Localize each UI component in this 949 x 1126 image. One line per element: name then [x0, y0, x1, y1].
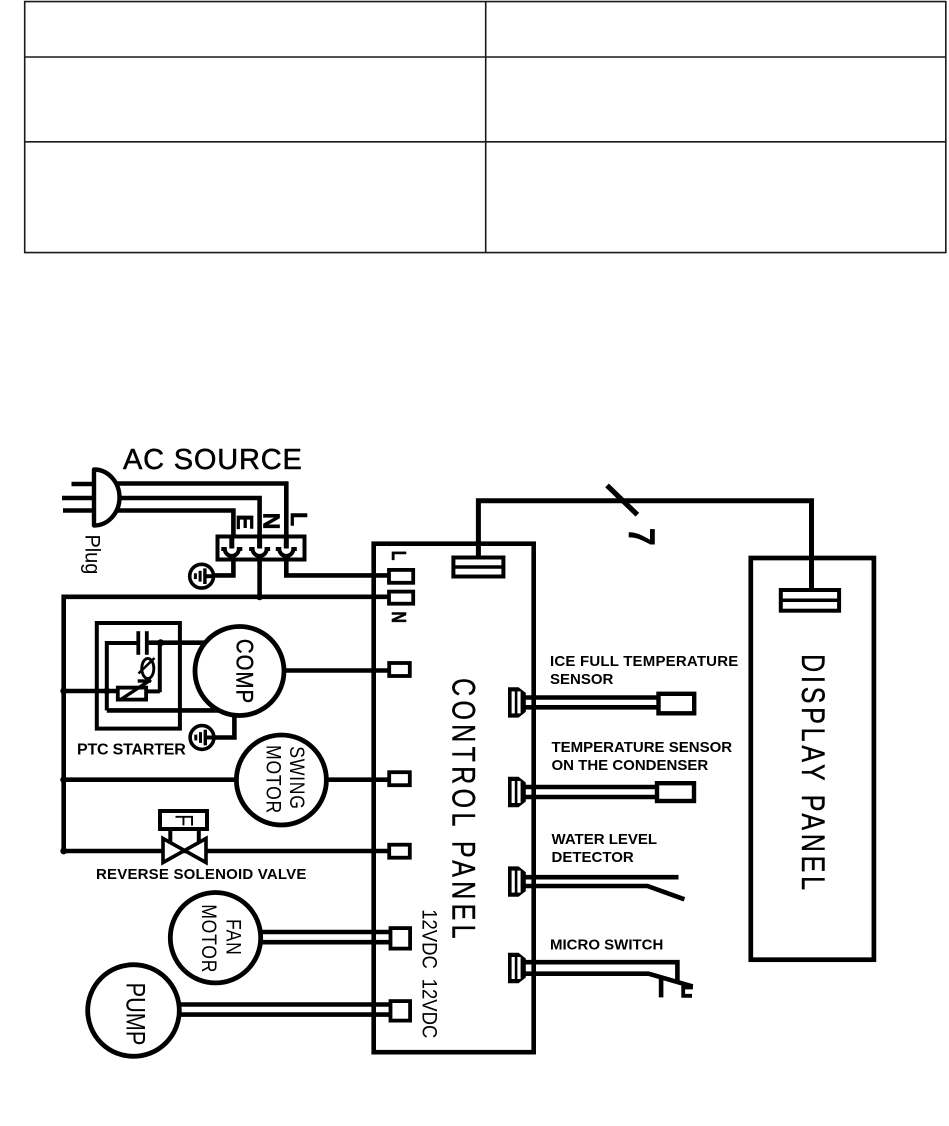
svg-text:PTC STARTER: PTC STARTER — [77, 742, 186, 759]
svg-text:MOTOR: MOTOR — [261, 745, 285, 814]
svg-text:PUMP: PUMP — [120, 983, 150, 1046]
svg-text:DETECTOR: DETECTOR — [552, 849, 634, 866]
svg-text:MICRO SWITCH: MICRO SWITCH — [550, 937, 663, 954]
svg-text:12VDC: 12VDC — [417, 909, 441, 969]
svg-text:MOTOR: MOTOR — [197, 904, 221, 973]
svg-text:REVERSE SOLENOID VALVE: REVERSE SOLENOID VALVE — [96, 866, 307, 883]
svg-text:FAN: FAN — [221, 919, 245, 955]
svg-text:N: N — [259, 513, 285, 530]
svg-text:TEMPERATURE SENSOR: TEMPERATURE SENSOR — [552, 739, 733, 756]
svg-text:F: F — [170, 814, 198, 826]
svg-text:L: L — [387, 551, 409, 561]
svg-text:E: E — [232, 514, 258, 529]
svg-text:7: 7 — [621, 528, 662, 546]
svg-text:12VDC: 12VDC — [417, 979, 441, 1039]
svg-text:DISPLAY PANEL: DISPLAY PANEL — [794, 654, 830, 894]
svg-text:SWING: SWING — [284, 746, 308, 809]
svg-text:SENSOR: SENSOR — [550, 671, 614, 688]
svg-text:ON THE CONDENSER: ON THE CONDENSER — [552, 757, 709, 774]
svg-text:COMP: COMP — [231, 639, 258, 704]
svg-text:CONTROL PANEL: CONTROL PANEL — [445, 678, 481, 943]
svg-text:AC SOURCE: AC SOURCE — [123, 444, 303, 476]
svg-text:L: L — [286, 512, 312, 526]
svg-text:ICE FULL TEMPERATURE: ICE FULL TEMPERATURE — [550, 653, 738, 670]
svg-text:Plug: Plug — [80, 534, 104, 574]
svg-text:N: N — [387, 611, 409, 623]
svg-text:WATER LEVEL: WATER LEVEL — [552, 831, 658, 848]
